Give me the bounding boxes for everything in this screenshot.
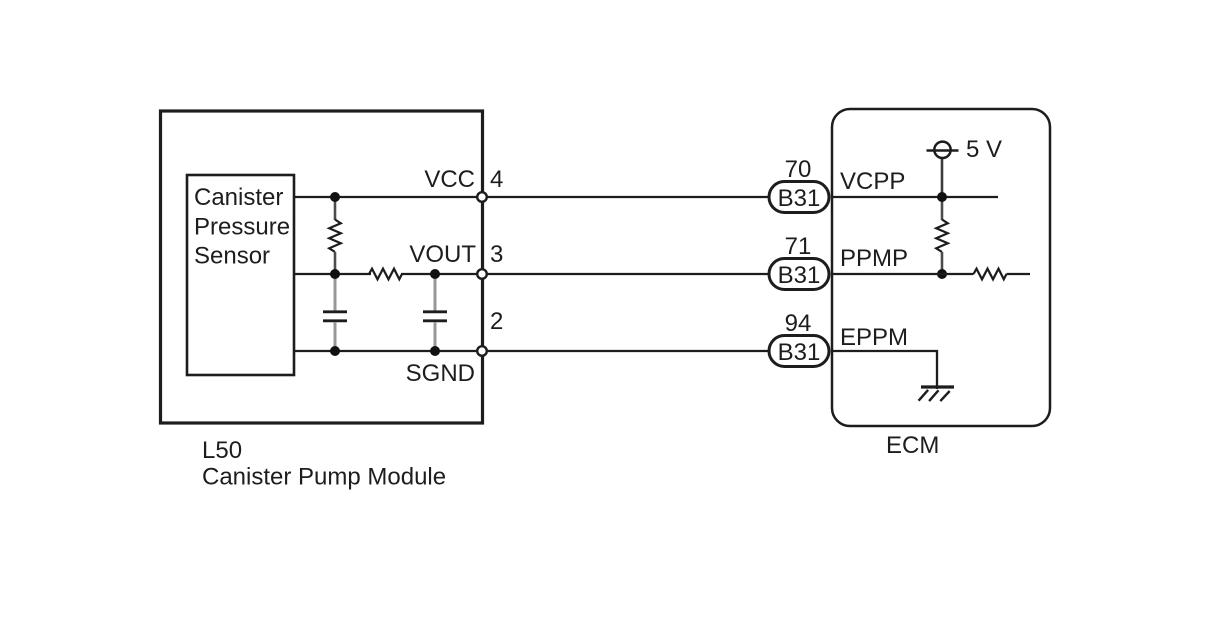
pin 2 terminal — [477, 346, 487, 356]
sensor box — [187, 175, 294, 375]
junction node SGND / C2 — [430, 346, 440, 356]
junction node VOUT / R1 / C1 — [330, 269, 340, 279]
wire PPMP right stub — [1007, 273, 1031, 275]
junction node VCC / R1 — [330, 192, 340, 202]
svg-text:VOUT: VOUT — [409, 241, 476, 268]
svg-text:5 V: 5 V — [966, 136, 1002, 163]
svg-text:B31: B31 — [778, 339, 821, 366]
junction node PPMP / R3 — [937, 269, 947, 279]
resistor R1 vertical inside module — [329, 197, 341, 274]
resistor R4 series on PPMP — [974, 269, 1007, 280]
svg-text:B31: B31 — [778, 262, 821, 289]
wire VOUT net: resistor to connector B31-71 — [401, 273, 769, 275]
junction node SGND / C1 — [330, 346, 340, 356]
wire VCC net: sensor output to connector B31-70 — [294, 196, 769, 198]
ground symbol — [919, 387, 954, 401]
resistor R2 series on VOUT — [369, 269, 402, 280]
svg-text:EPPM: EPPM — [840, 324, 908, 351]
svg-text:VCC: VCC — [424, 166, 475, 193]
ECM box — [832, 109, 1050, 426]
capacitor C1 — [323, 274, 347, 351]
wire EPPM inside ECM — [832, 351, 937, 389]
svg-text:3: 3 — [490, 241, 503, 268]
junction node VCPP / R3 — [937, 192, 947, 202]
svg-text:2: 2 — [490, 308, 503, 335]
svg-text:71: 71 — [785, 233, 812, 260]
connector terminal B31 (pin 94) — [769, 336, 829, 367]
svg-text:L50: L50 — [202, 437, 242, 464]
pin 3 terminal — [477, 269, 487, 279]
pin 4 terminal — [477, 192, 487, 202]
5V supply symbol — [927, 142, 959, 197]
connector terminal B31 (pin 71) — [769, 259, 829, 290]
svg-text:SGND: SGND — [406, 360, 475, 387]
resistor R3 pull-up inside ECM — [936, 197, 948, 274]
svg-text:VCPP: VCPP — [840, 168, 905, 195]
svg-text:4: 4 — [490, 166, 503, 193]
svg-text:94: 94 — [785, 310, 812, 337]
capacitor C2 — [423, 274, 447, 351]
svg-text:PPMP: PPMP — [840, 245, 908, 272]
L50 canister pump module box — [161, 111, 483, 423]
svg-text:Canister Pump Module: Canister Pump Module — [202, 464, 446, 491]
wire SGND net: sensor to connector B31-94 — [294, 350, 769, 352]
wire VCPP inside ECM — [832, 196, 998, 198]
connector terminal B31 (pin 70) — [769, 182, 829, 213]
svg-text:70: 70 — [785, 156, 812, 183]
svg-text:ECM: ECM — [886, 432, 939, 459]
wire PPMP inside ECM — [832, 273, 974, 275]
wire VOUT net: sensor to series resistor — [294, 273, 371, 275]
svg-text:B31: B31 — [778, 185, 821, 212]
junction node VOUT / C2 — [430, 269, 440, 279]
